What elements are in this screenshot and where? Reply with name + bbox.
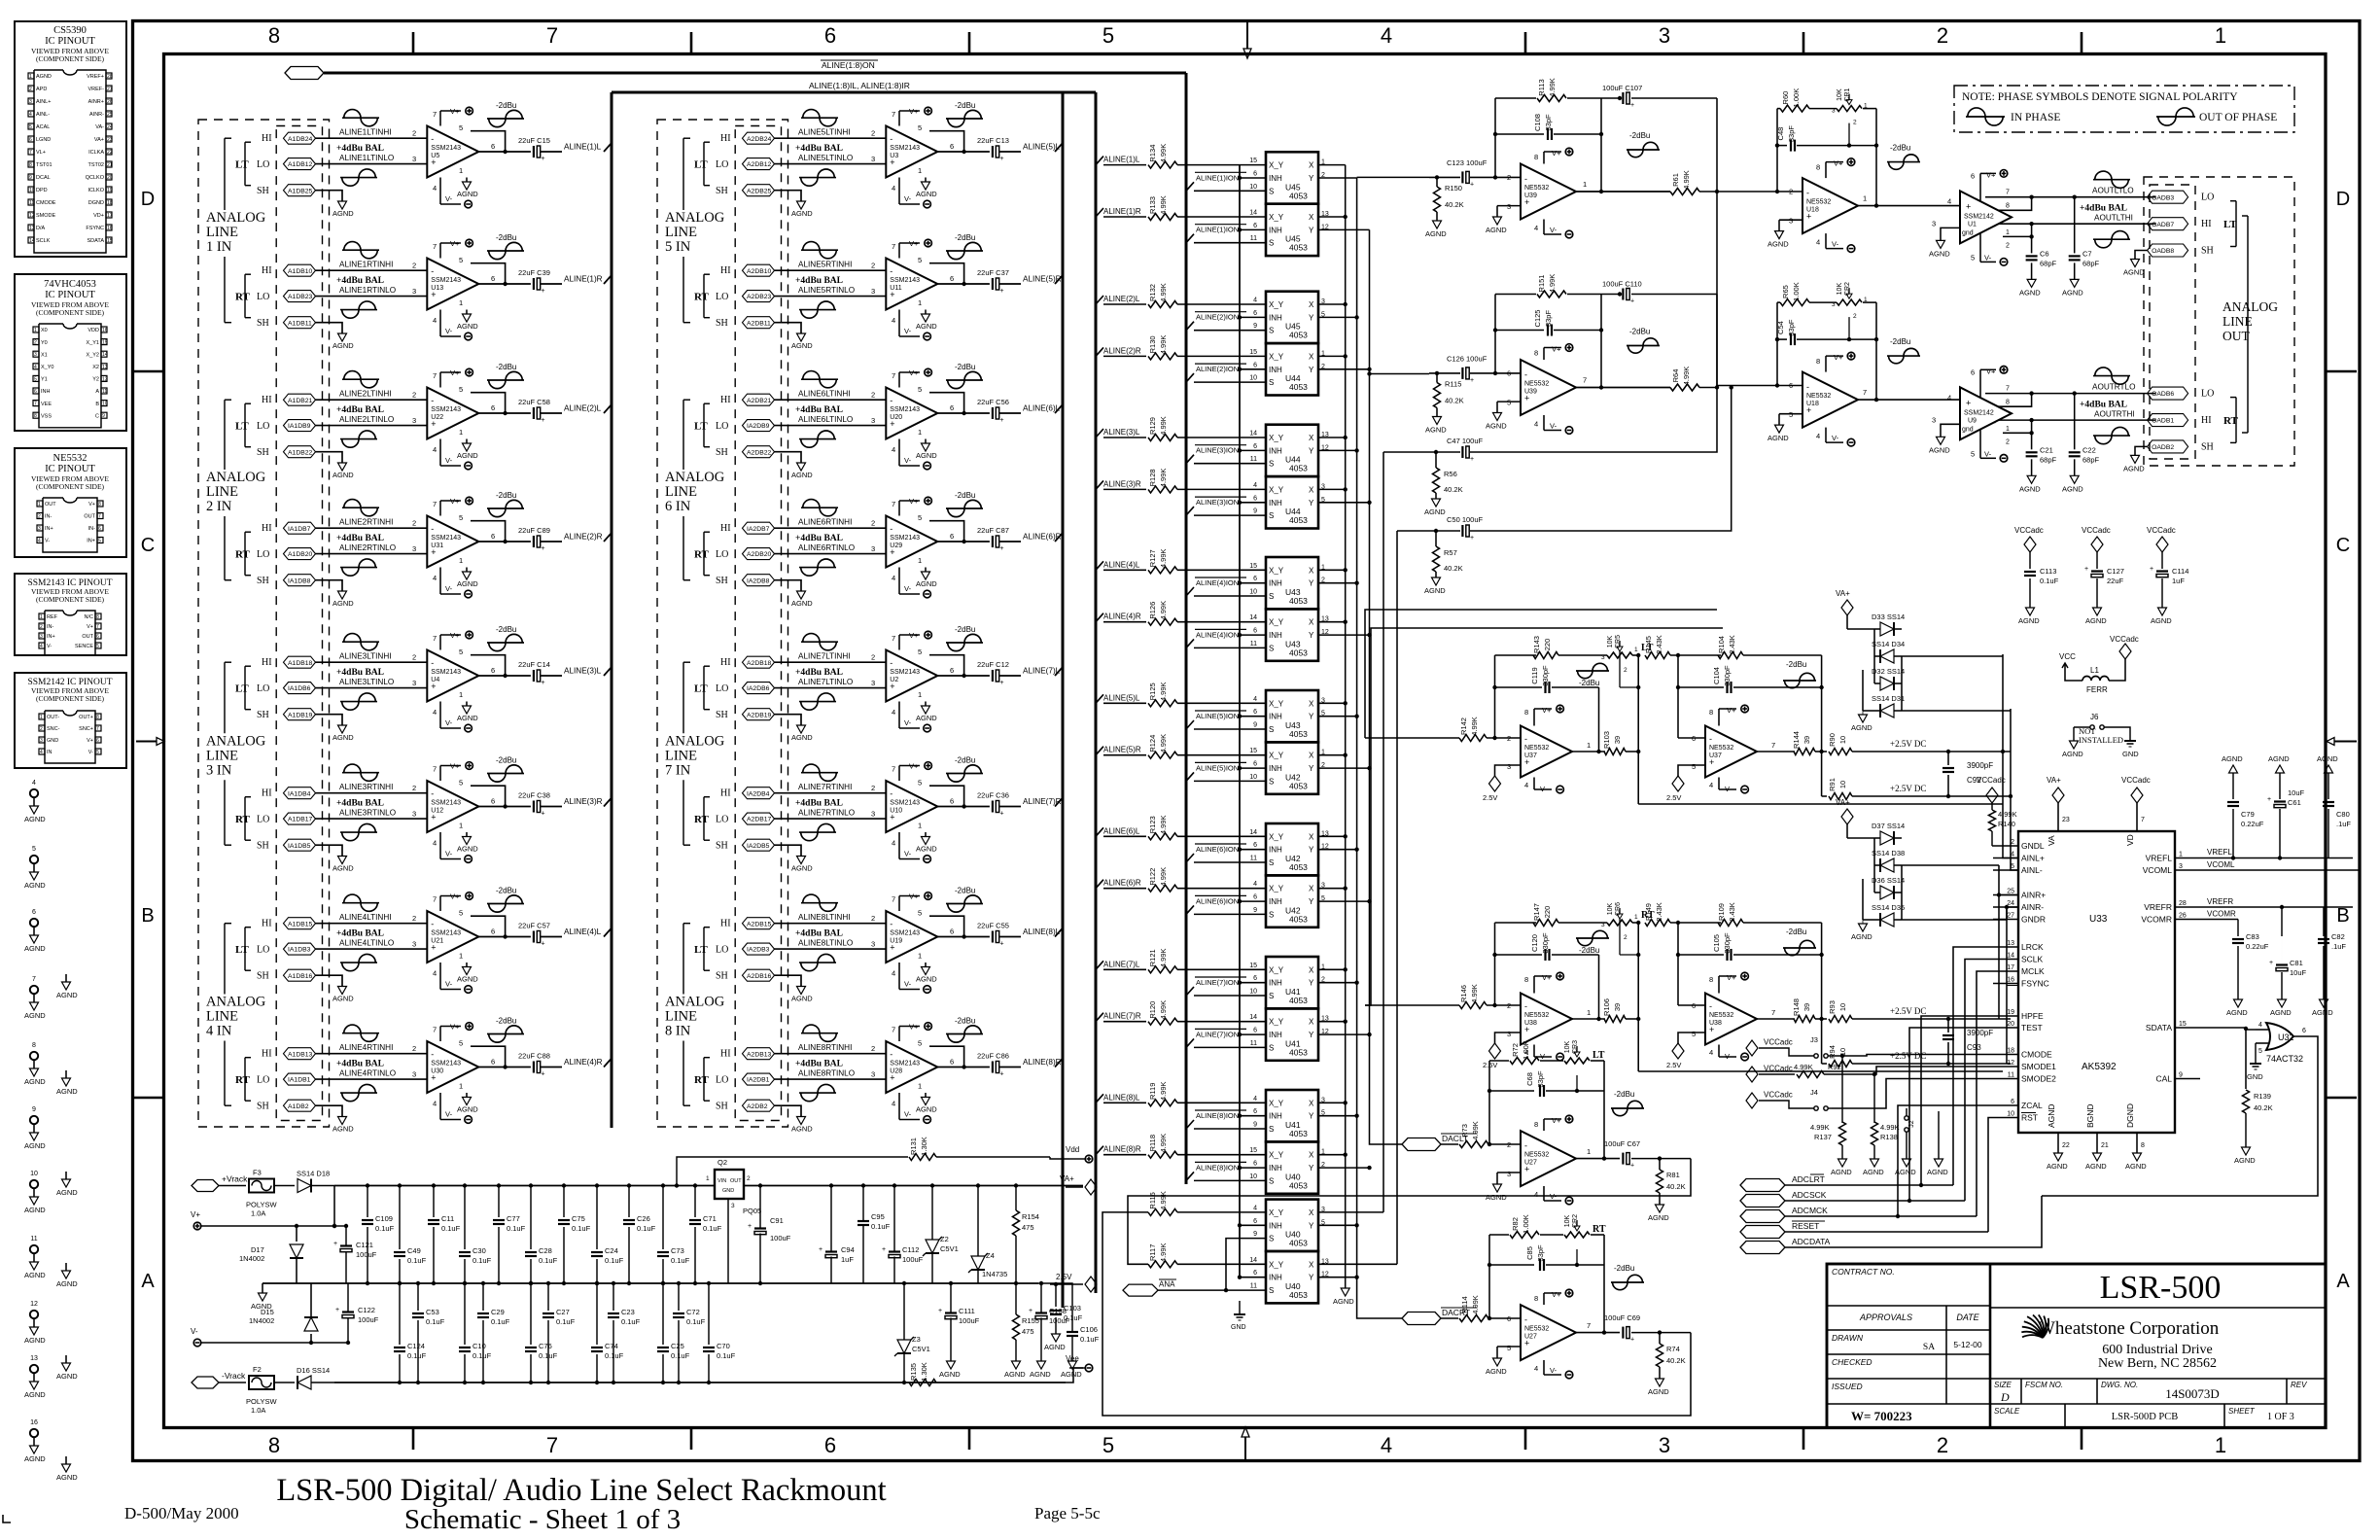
svg-text:ALINE3LTINLO: ALINE3LTINLO	[339, 678, 394, 686]
svg-text:39: 39	[1613, 736, 1622, 744]
wire DACLT return loop	[1128, 1159, 1691, 1265]
svg-text:10K: 10K	[1837, 283, 1843, 296]
connector arrow ADCMCK	[1740, 1210, 1785, 1223]
power pin 4 V-	[439, 568, 441, 595]
svg-text:AGND: AGND	[2019, 288, 2041, 297]
ground pin 1 AGND	[925, 439, 927, 444]
svg-text:7: 7	[433, 765, 437, 774]
phase symbol out-of-phase	[799, 309, 836, 311]
svg-text:ALINE1LTINHI: ALINE1LTINHI	[339, 128, 392, 137]
channel bracket	[703, 927, 705, 971]
capacitor C94 1uF	[825, 1250, 837, 1252]
svg-text:A: A	[141, 1271, 155, 1292]
svg-text:X_Y: X_Y	[1269, 566, 1284, 575]
channel bracket	[244, 797, 246, 841]
svg-text:5: 5	[459, 385, 463, 394]
svg-text:IA1DB3: IA1DB3	[288, 947, 311, 954]
svg-text:LO: LO	[257, 549, 269, 560]
mux output wires	[1318, 1102, 1346, 1103]
note box phase symbols	[1954, 86, 2294, 132]
svg-text:4: 4	[38, 539, 41, 544]
svg-text:12: 12	[30, 1301, 38, 1308]
phase -2dBu U27	[1611, 1107, 1644, 1109]
wheatstone logo	[2021, 1314, 2048, 1338]
svg-text:4.99K: 4.99K	[1159, 815, 1168, 834]
svg-text:V-: V-	[45, 539, 50, 544]
ground pin 1 AGND	[466, 832, 468, 837]
ground pin 1 AGND	[925, 568, 927, 573]
pin 9 CAL	[2175, 1078, 2200, 1080]
svg-text:A2DB19: A2DB19	[747, 712, 772, 718]
svg-text:15: 15	[1249, 962, 1257, 969]
svg-text:AGND: AGND	[2234, 1156, 2256, 1165]
svg-text:U5: U5	[431, 153, 439, 159]
svg-text:+: +	[1966, 398, 1971, 407]
svg-text:1.00K: 1.00K	[1522, 1040, 1530, 1060]
svg-text:7: 7	[2006, 190, 2010, 196]
svg-text:+4dBu BAL: +4dBu BAL	[795, 405, 843, 415]
wire LO	[316, 948, 428, 950]
svg-text:SSM2142: SSM2142	[1964, 213, 1994, 220]
svg-text:V-: V-	[904, 327, 912, 335]
svg-text:X_Y: X_Y	[1269, 1260, 1284, 1269]
svg-text:SNC-: SNC-	[47, 726, 60, 732]
svg-text:LINE: LINE	[665, 1009, 697, 1025]
phase symbol in-phase legend	[1966, 116, 2005, 118]
svg-text:+4dBu BAL: +4dBu BAL	[336, 276, 384, 286]
wire LO	[316, 163, 428, 165]
output pin 6 wire	[937, 283, 990, 285]
reference 2.5V diamond first	[1495, 765, 1522, 777]
wire to output bus	[999, 283, 1021, 285]
select wire ALINE ION	[1186, 322, 1194, 331]
svg-text:4: 4	[892, 708, 895, 717]
svg-text:+: +	[542, 545, 545, 552]
svg-text:4053: 4053	[1289, 914, 1308, 924]
svg-text:33pF: 33pF	[1787, 125, 1796, 143]
svg-text:V-: V-	[904, 718, 912, 727]
svg-text:6: 6	[1253, 842, 1257, 849]
svg-text:SH: SH	[257, 971, 269, 982]
svg-text:IA2DB6: IA2DB6	[747, 685, 770, 692]
input connector flag IA2DB8 SH	[743, 575, 775, 586]
resistor R127 4.99K input	[1096, 561, 1103, 570]
svg-text:A1DB13: A1DB13	[288, 1051, 313, 1058]
svg-text:1.00K: 1.00K	[1792, 88, 1801, 108]
svg-text:AGND: AGND	[2062, 750, 2083, 758]
input connector flag IA2DB7 HI	[743, 522, 775, 534]
svg-text:OUT: OUT	[2222, 329, 2250, 343]
pin 27 GNDR	[1993, 919, 2018, 921]
svg-text:3: 3	[871, 1070, 875, 1079]
svg-text:0.1uF: 0.1uF	[539, 1351, 558, 1360]
svg-text:+Vrack: +Vrack	[222, 1174, 248, 1184]
svg-text:C108: C108	[1533, 114, 1542, 131]
svg-text:5: 5	[34, 376, 37, 382]
svg-text:S: S	[1269, 910, 1274, 919]
svg-text:U2: U2	[890, 677, 898, 683]
svg-text:4.99K: 4.99K	[1470, 984, 1479, 1003]
reference 2.5V diamond second	[1678, 1032, 1705, 1044]
svg-text:R93: R93	[1828, 1000, 1837, 1014]
svg-text:+: +	[1470, 456, 1474, 463]
svg-text:AGND: AGND	[24, 1454, 46, 1463]
phase symbol -2dBu	[1887, 355, 1920, 357]
svg-text:0.1uF: 0.1uF	[671, 1351, 690, 1360]
power pin 4 V-	[898, 962, 900, 990]
svg-text:22uF C15: 22uF C15	[518, 136, 550, 145]
power rail mid AGND	[262, 1282, 1038, 1284]
svg-text:13: 13	[29, 226, 35, 231]
ground pin 1 AGND	[925, 832, 927, 837]
svg-text:1.00K: 1.00K	[1522, 1214, 1530, 1234]
svg-text:17: 17	[2007, 964, 2014, 971]
output pin 6 wire	[478, 541, 531, 542]
svg-text:AGND: AGND	[2047, 1162, 2068, 1171]
mux output wires	[1318, 702, 1346, 704]
pin 20 TEST	[1993, 1027, 2018, 1029]
ground AGND	[338, 1117, 347, 1125]
svg-text:LINE: LINE	[206, 225, 238, 240]
svg-text:A2DB11: A2DB11	[747, 320, 771, 327]
power pin 7 V+	[898, 1027, 900, 1042]
svg-text:AGND: AGND	[332, 599, 354, 608]
feedback vertical second	[1677, 923, 1679, 1005]
svg-text:33pF: 33pF	[1544, 114, 1553, 131]
svg-text:L1: L1	[2090, 666, 2099, 675]
wire INH bus	[1240, 849, 1266, 851]
power flag VCCadc ADC	[2131, 787, 2143, 803]
svg-text:V-: V-	[445, 327, 453, 335]
svg-text:D36 SS14: D36 SS14	[1872, 876, 1905, 885]
zone ticks top	[412, 32, 415, 54]
svg-text:0.1uF: 0.1uF	[491, 1317, 510, 1326]
svg-text:3: 3	[871, 287, 875, 296]
svg-text:Y: Y	[1309, 713, 1314, 721]
svg-text:POLYSW: POLYSW	[246, 1201, 277, 1209]
svg-text:-2dBu: -2dBu	[496, 1017, 516, 1026]
phase -2dBu U27	[1611, 1281, 1644, 1283]
svg-text:6: 6	[950, 666, 954, 675]
ground AGND	[338, 987, 347, 995]
svg-text:6: 6	[1253, 709, 1257, 716]
capacitor C79 0.22uF	[2229, 765, 2238, 773]
feedback pin 5 loop	[467, 1045, 469, 1047]
power pin 4 V-	[439, 832, 441, 859]
wire LO	[775, 296, 887, 297]
svg-text:1: 1	[459, 166, 463, 175]
svg-text:INH: INH	[1269, 631, 1282, 640]
svg-text:QCLKO: QCLKO	[86, 175, 105, 181]
svg-text:15: 15	[1249, 563, 1257, 570]
svg-text:4053: 4053	[1289, 647, 1308, 657]
output pin 6 wire	[478, 283, 531, 285]
bus vertical column1 collector	[611, 92, 613, 1128]
svg-text:4053: 4053	[1289, 464, 1308, 473]
svg-text:18: 18	[2007, 1048, 2014, 1055]
svg-text:13: 13	[30, 1355, 38, 1362]
svg-text:HI: HI	[720, 788, 731, 799]
svg-text:AGND: AGND	[56, 991, 78, 999]
input connector flag A2DB17 LO	[743, 813, 775, 824]
svg-text:V-: V-	[1725, 785, 1732, 793]
svg-text:R92: R92	[1828, 1063, 1841, 1071]
wire ADCLRT	[1785, 1184, 1953, 1186]
svg-text:TST01: TST01	[36, 162, 52, 168]
wire SH to ground	[316, 580, 343, 591]
capacitor C11 0.1uF	[433, 1186, 435, 1218]
svg-text:HI: HI	[262, 1049, 272, 1060]
svg-text:-: -	[1524, 1001, 1527, 1011]
wire rail to Vee	[1066, 1368, 1083, 1382]
potentiometer CR6 10K	[1607, 920, 1632, 926]
svg-text:ALINE(4)L: ALINE(4)L	[564, 927, 602, 936]
svg-text:R151: R151	[1537, 275, 1546, 293]
svg-text:7: 7	[892, 634, 895, 643]
power V- pin 5	[1979, 233, 1981, 262]
svg-text:LSR-500: LSR-500	[2100, 1270, 2222, 1306]
resistor R144 39	[1757, 751, 1795, 752]
phase symbol out-of-phase	[340, 567, 377, 569]
svg-text:VIN: VIN	[717, 1178, 726, 1184]
ground AGND bundle	[1341, 1288, 1349, 1296]
svg-text:4053: 4053	[1289, 729, 1308, 739]
svg-text:-2dBu: -2dBu	[1629, 131, 1650, 140]
svg-text:-2dBu: -2dBu	[955, 887, 975, 895]
svg-text:X_Y: X_Y	[1269, 161, 1284, 170]
svg-text:C25: C25	[671, 1342, 684, 1350]
svg-text:5: 5	[459, 1039, 463, 1048]
svg-text:C26: C26	[637, 1214, 650, 1223]
svg-text:4: 4	[892, 316, 895, 325]
svg-text:ALINE(7)L: ALINE(7)L	[1023, 667, 1061, 676]
op-amp U39	[1521, 164, 1576, 220]
wire to output bus	[541, 806, 562, 808]
svg-text:X_Y: X_Y	[1269, 434, 1284, 442]
svg-text:C: C	[141, 535, 155, 556]
svg-text:RT: RT	[1592, 1224, 1606, 1235]
capacitor C86 22uF	[992, 1062, 994, 1073]
svg-text:330pF: 330pF	[1723, 932, 1732, 954]
svg-text:X: X	[1309, 485, 1314, 494]
svg-text:9: 9	[1253, 323, 1257, 330]
svg-text:ALINE3LTINHI: ALINE3LTINHI	[339, 652, 392, 661]
svg-text:AGND: AGND	[24, 815, 46, 823]
svg-text:2: 2	[2006, 242, 2010, 249]
svg-text:4: 4	[1253, 1205, 1257, 1211]
svg-text:25: 25	[107, 112, 113, 118]
svg-text:R146: R146	[1459, 985, 1468, 1002]
svg-text:A1DB22: A1DB22	[288, 449, 313, 456]
svg-text:AGND: AGND	[2151, 616, 2172, 625]
wire SH ground	[2135, 446, 2148, 455]
svg-text:6: 6	[950, 274, 954, 283]
svg-text:V+: V+	[909, 631, 919, 640]
resistor R114 4.99K	[1441, 1317, 1458, 1319]
svg-text:S: S	[1269, 460, 1274, 469]
svg-text:4: 4	[29, 112, 32, 118]
svg-text:X: X	[1309, 213, 1314, 222]
svg-text:ALINE(6)L: ALINE(6)L	[1023, 404, 1061, 413]
svg-text:TEST: TEST	[2021, 1023, 2043, 1032]
svg-text:33pF: 33pF	[1536, 1244, 1545, 1262]
svg-text:4.99K: 4.99K	[1548, 274, 1557, 294]
op-amp U19	[886, 911, 937, 962]
svg-text:LT: LT	[235, 421, 249, 433]
power V- pin 4	[1825, 428, 1827, 443]
svg-text:6: 6	[2011, 1099, 2014, 1105]
output pin 6 wire	[478, 675, 531, 677]
wire LO	[316, 818, 428, 820]
group bracket line	[682, 138, 684, 210]
svg-text:INH: INH	[1269, 366, 1282, 374]
svg-text:C112: C112	[902, 1245, 919, 1254]
output pin 6 wire	[937, 806, 990, 808]
svg-text:S: S	[1269, 777, 1274, 786]
svg-text:+: +	[1000, 288, 1004, 295]
svg-text:2: 2	[871, 129, 875, 138]
power V+ pin 8	[1825, 356, 1827, 372]
diode ladder wires	[1873, 838, 1875, 892]
wire HI	[775, 923, 887, 925]
svg-text:-: -	[890, 266, 892, 276]
svg-text:3: 3	[1601, 922, 1605, 928]
wire riser RESET	[1988, 1118, 1993, 1233]
svg-text:R120: R120	[1148, 1001, 1157, 1019]
svg-text:R65: R65	[1781, 285, 1790, 298]
svg-text:22: 22	[107, 150, 113, 156]
wire to output bus	[999, 412, 1021, 414]
svg-text:39: 39	[1802, 736, 1811, 744]
svg-text:SCLK: SCLK	[36, 238, 51, 244]
svg-text:ANALOG: ANALOG	[206, 470, 266, 485]
svg-text:(COMPONENT SIDE): (COMPONENT SIDE)	[36, 694, 105, 703]
svg-text:4.99K: 4.99K	[1159, 144, 1168, 163]
svg-text:1: 1	[1587, 741, 1591, 750]
svg-text:+: +	[1000, 417, 1004, 424]
svg-text:2.43K: 2.43K	[1728, 902, 1736, 922]
svg-text:AGND: AGND	[24, 1077, 46, 1086]
svg-text:OADB6: OADB6	[2152, 391, 2174, 398]
capacitor C25 0.1uF	[662, 1283, 664, 1345]
svg-text:10: 10	[1249, 1173, 1257, 1180]
svg-text:V+: V+	[909, 892, 919, 901]
capacitor C112 100uF	[889, 1250, 900, 1252]
svg-text:-Vrack: -Vrack	[222, 1371, 246, 1381]
svg-text:1: 1	[1587, 1147, 1591, 1156]
wire to output bus	[541, 936, 562, 938]
svg-text:68pF: 68pF	[2040, 259, 2057, 267]
svg-text:SSM2143: SSM2143	[890, 800, 920, 807]
svg-text:ALINE4LTINHI: ALINE4LTINHI	[339, 913, 392, 922]
pin 25 AINR+	[1993, 894, 2018, 896]
svg-text:ALINE(4)ION: ALINE(4)ION	[1196, 630, 1239, 639]
wire VREFR	[2200, 906, 2353, 908]
svg-text:SH: SH	[716, 447, 728, 458]
svg-text:A1DB24: A1DB24	[288, 136, 313, 143]
bus entry tick	[604, 404, 612, 413]
power pin 7 V+	[898, 766, 900, 782]
resistor R74 40.2K	[1658, 1330, 1662, 1334]
svg-text:+: +	[1630, 298, 1634, 305]
phase symbol out-of-phase	[340, 438, 377, 440]
svg-text:+4dBu BAL: +4dBu BAL	[2080, 204, 2127, 214]
svg-text:10K: 10K	[1607, 635, 1614, 647]
svg-text:-: -	[431, 1050, 434, 1060]
wire LO	[775, 1078, 887, 1080]
svg-text:IN+: IN+	[47, 634, 55, 640]
svg-text:6: 6	[491, 666, 495, 675]
svg-text:AGND: AGND	[457, 579, 478, 588]
svg-text:S: S	[1269, 592, 1274, 601]
svg-text:3: 3	[871, 679, 875, 687]
svg-text:2: 2	[412, 1044, 416, 1053]
svg-text:ICLKA: ICLKA	[88, 150, 104, 156]
capacitor C39 22uF	[533, 278, 535, 290]
output pin 6 wire	[937, 1067, 990, 1068]
ground pin 1 AGND	[466, 962, 468, 967]
svg-text:SSM2143: SSM2143	[431, 1061, 461, 1067]
svg-text:0.1uF: 0.1uF	[1080, 1335, 1100, 1344]
output connector flag OADB7 HI	[2148, 218, 2188, 230]
bus entry tick	[604, 667, 612, 676]
capacitor C85 33pF	[1489, 1264, 1534, 1266]
input connector flag IA1DB7 HI	[284, 522, 316, 534]
ground AGND	[797, 987, 806, 995]
mux output wires	[1318, 1154, 1346, 1156]
svg-text:+: +	[819, 1246, 822, 1253]
wire to output bus	[999, 675, 1021, 677]
svg-text:7: 7	[96, 726, 99, 732]
svg-text:100uF: 100uF	[902, 1255, 924, 1264]
resistor R155 475	[1015, 1283, 1017, 1314]
svg-text:5: 5	[918, 647, 922, 656]
svg-text:A1DB18: A1DB18	[288, 660, 313, 667]
wire INH bus	[1240, 228, 1266, 230]
output pin 6 wire	[937, 151, 990, 153]
svg-text:AGND: AGND	[1424, 507, 1446, 516]
svg-text:RT: RT	[694, 549, 710, 561]
ground symbol AGND	[65, 1355, 67, 1363]
svg-text:2: 2	[871, 391, 875, 400]
power pins U27	[1543, 1293, 1545, 1305]
svg-text:X_Y: X_Y	[1269, 618, 1284, 627]
svg-text:ALINE(8)ION: ALINE(8)ION	[1196, 1111, 1239, 1120]
ground AGND	[1778, 220, 1780, 230]
svg-text:4 IN: 4 IN	[206, 1024, 232, 1039]
phase symbol out-of-phase	[340, 309, 377, 311]
svg-text:V+: V+	[1552, 1116, 1561, 1125]
capacitor C81 10uF	[2281, 907, 2283, 936]
wire U37 input feed	[1365, 610, 1717, 738]
svg-text:-2dBu: -2dBu	[955, 101, 975, 110]
power V- pin 4	[1543, 220, 1545, 235]
svg-text:INH: INH	[1269, 1221, 1282, 1230]
svg-text:R131: R131	[909, 1137, 918, 1155]
svg-text:AOUTRTLO: AOUTRTLO	[2092, 383, 2135, 392]
svg-text:SSM2143: SSM2143	[431, 277, 461, 284]
svg-text:Y: Y	[1309, 1031, 1314, 1039]
wire AINR+ feed	[1999, 865, 2018, 895]
pin 6 ZCAL	[1993, 1104, 2018, 1106]
svg-text:4: 4	[1709, 1048, 1713, 1057]
svg-text:9: 9	[1253, 1231, 1257, 1238]
svg-text:A2DB17: A2DB17	[747, 817, 772, 823]
svg-text:LT: LT	[694, 421, 708, 433]
phase symbol in	[342, 1032, 379, 1034]
svg-text:A1DB20: A1DB20	[288, 551, 313, 558]
power pin 4 V-	[898, 439, 900, 467]
